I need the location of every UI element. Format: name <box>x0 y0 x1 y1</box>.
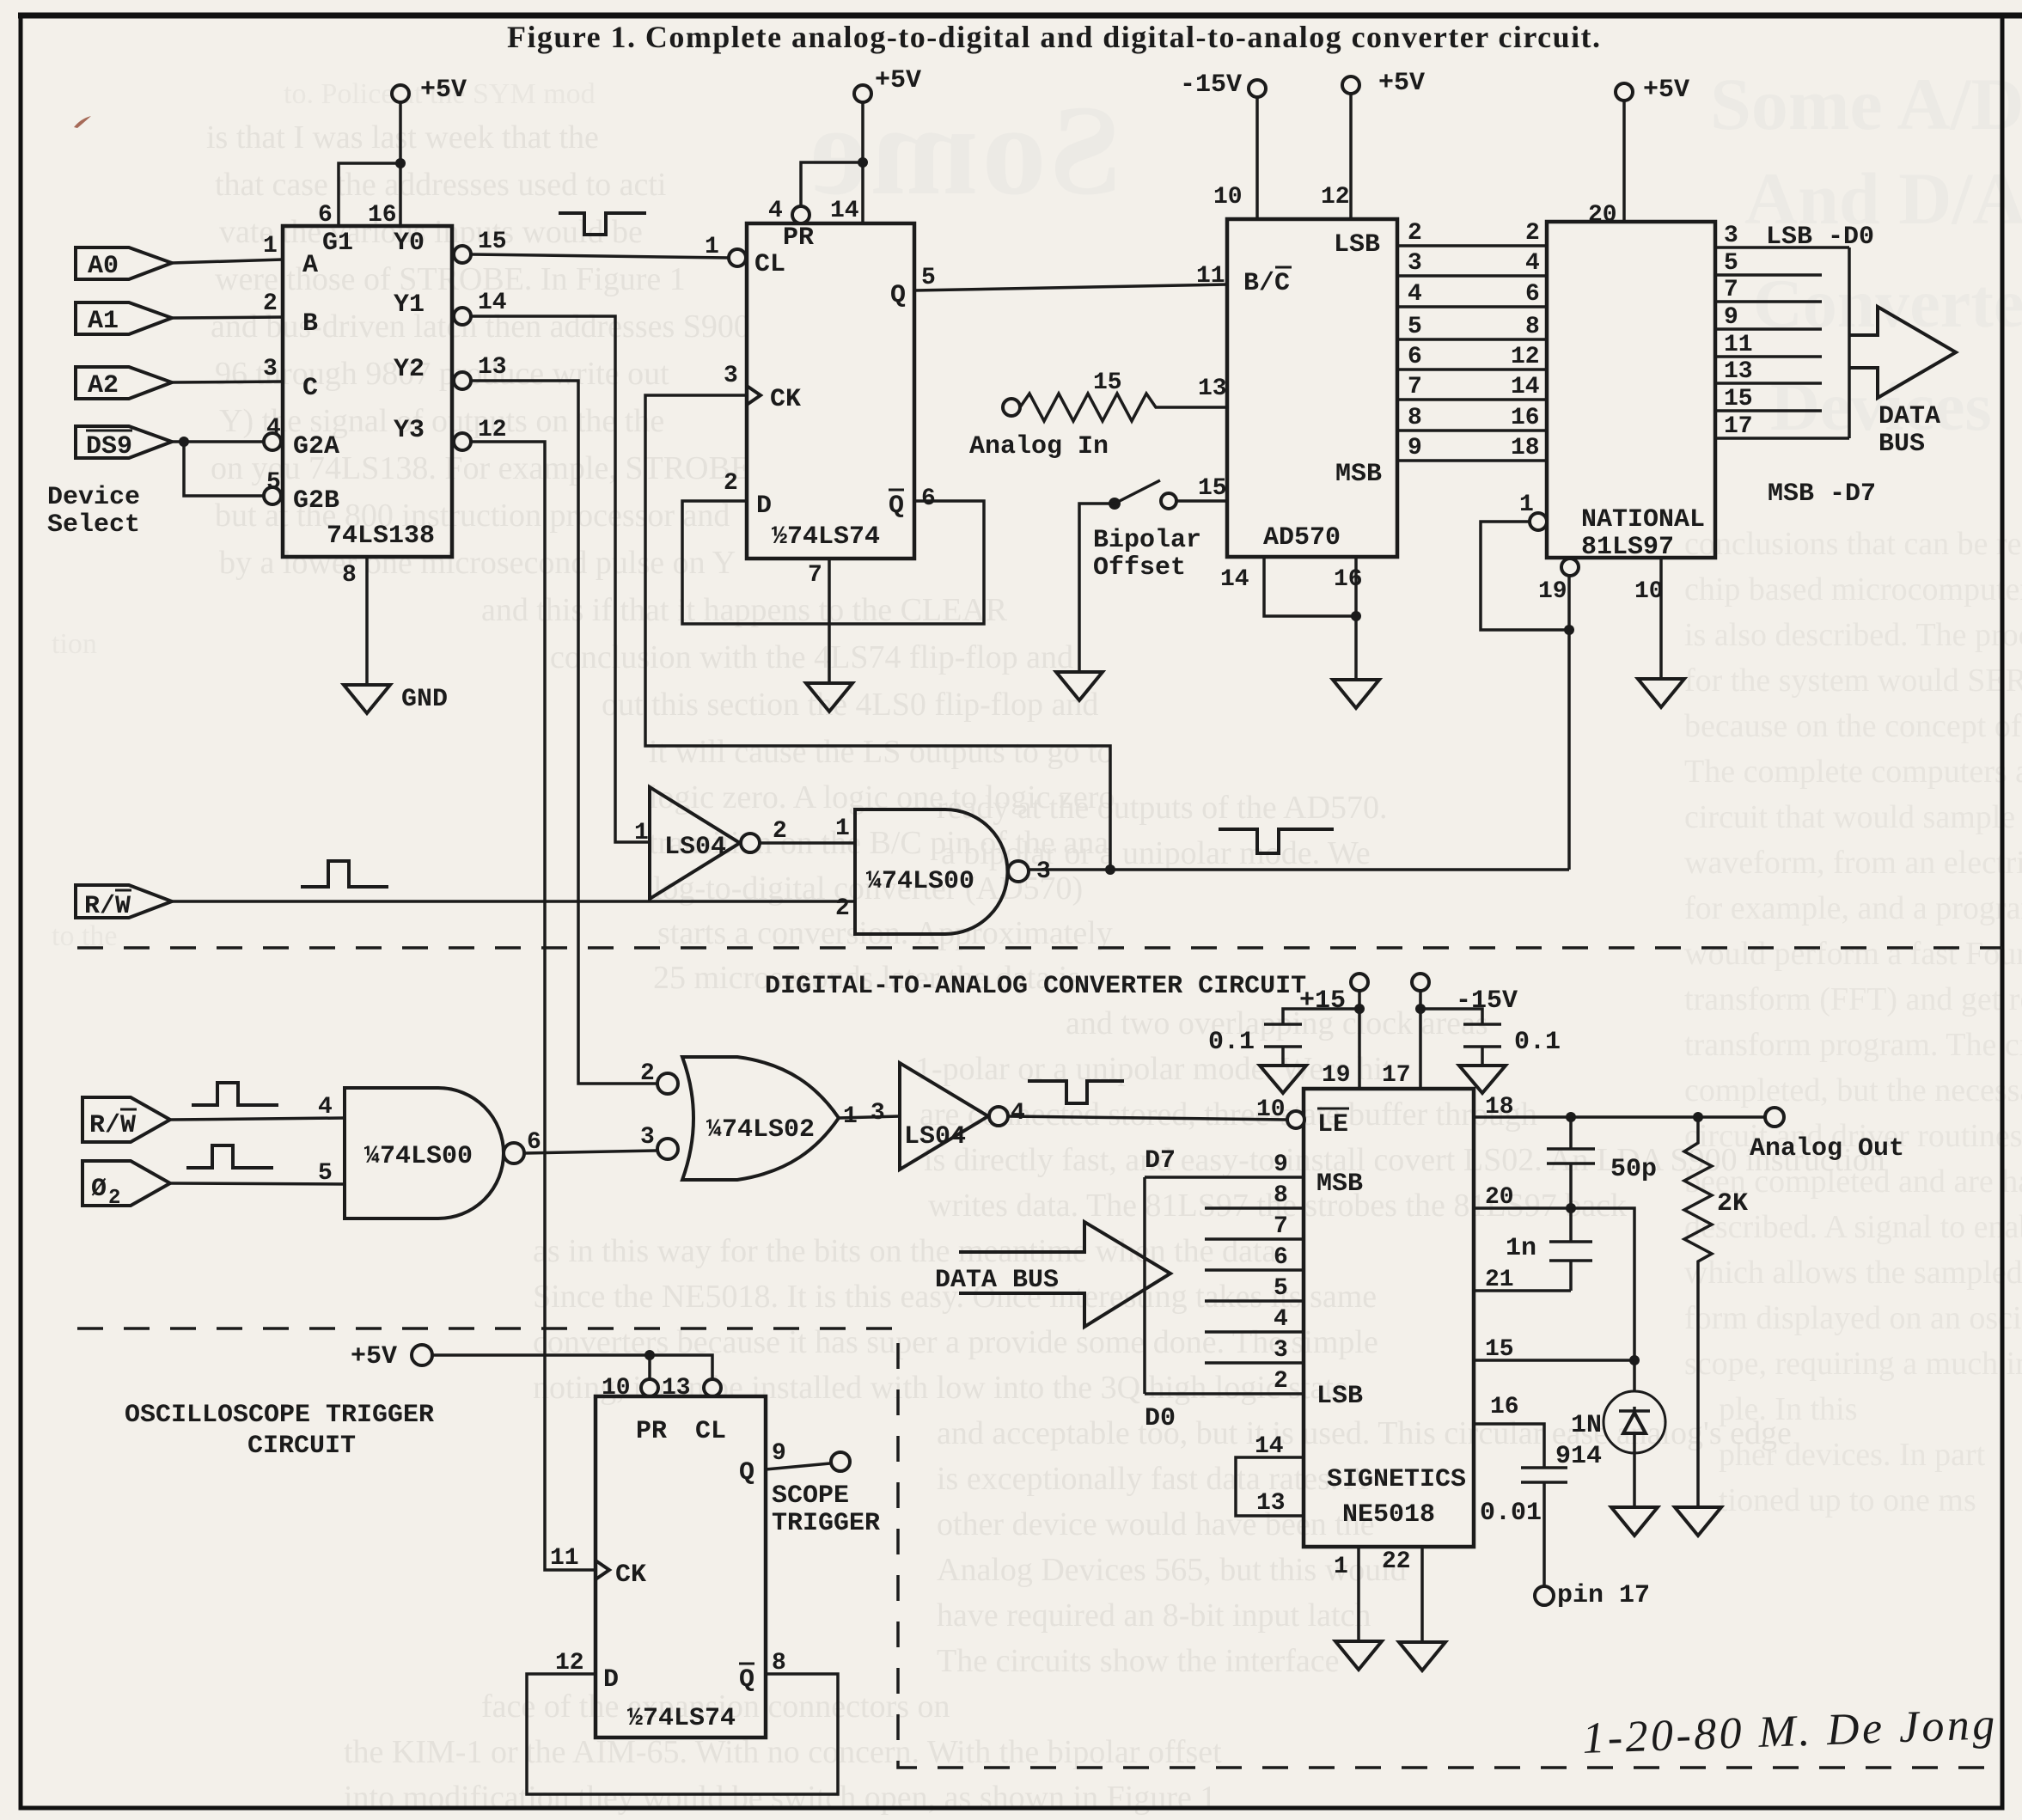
svg-text:¼74LS00: ¼74LS00 <box>364 1142 473 1171</box>
input tag A0 <box>76 247 172 281</box>
svg-text:0.1: 0.1 <box>1208 1028 1255 1057</box>
svg-text:CIRCUIT: CIRCUIT <box>247 1432 356 1461</box>
svg-text:Some A/D: Some A/D <box>1710 63 2022 145</box>
pin PR bubble (pin10) <box>602 1375 658 1402</box>
svg-text:would perform a fast Fourier: would perform a fast Fourier <box>1684 936 2022 972</box>
svg-text:15: 15 <box>1724 386 1753 412</box>
svg-text:transform program. The circuit: transform program. The circuits <box>1684 1027 2022 1063</box>
input tag A1 <box>76 302 172 336</box>
svg-text:LS04: LS04 <box>904 1122 966 1151</box>
svg-text:The complete computers and: The complete computers and <box>1684 754 2022 790</box>
wire DS9 to G2A with junction to G2B <box>172 415 281 496</box>
svg-text:Y2: Y2 <box>394 355 425 384</box>
inverter LS04 (DAC) <box>900 1063 1025 1170</box>
pin PR bubble <box>792 206 809 223</box>
wire 81LS97 pin1/pin19 enable from NAND output <box>1481 492 1579 870</box>
svg-text:4: 4 <box>1011 1100 1025 1127</box>
svg-text:PR: PR <box>636 1417 667 1446</box>
svg-text:½74LS74: ½74LS74 <box>627 1704 736 1733</box>
waveform positive pulse (phase2) <box>186 1145 273 1168</box>
svg-text:Bipolar: Bipolar <box>1093 526 1201 555</box>
svg-text:DS9: DS9 <box>86 432 132 461</box>
+5V supply (scope FF) <box>351 1342 432 1371</box>
svg-text:scope, requiring a much improv: scope, requiring a much improved <box>1684 1346 2022 1382</box>
wire Q pin9 to scope trigger terminal <box>766 1440 830 1469</box>
-15V supply (NE5018 pin17) <box>1382 974 1518 1089</box>
svg-text:Y3: Y3 <box>394 416 425 445</box>
svg-text:14: 14 <box>1511 374 1540 400</box>
svg-text:ready at the outputs of the AD: ready at the outputs of the AD570. <box>937 790 1388 826</box>
red pen mark <box>74 116 91 128</box>
svg-text:Q: Q <box>739 1665 754 1695</box>
svg-text:CL: CL <box>754 250 785 279</box>
label OSCILLOSCOPE TRIGGER CIRCUIT <box>125 1401 434 1461</box>
svg-text:3: 3 <box>263 356 278 382</box>
pin LE bubble <box>1256 1096 1304 1128</box>
svg-text:G1: G1 <box>322 229 353 258</box>
dashed separator line <box>77 946 2002 950</box>
svg-text:NE5018: NE5018 <box>1342 1500 1435 1530</box>
svg-text:Q: Q <box>889 492 904 521</box>
svg-text:14: 14 <box>1255 1433 1284 1460</box>
svg-text:9: 9 <box>1724 304 1738 331</box>
svg-text:-15V: -15V <box>1180 70 1242 100</box>
svg-text:16: 16 <box>1511 405 1540 431</box>
svg-text:15: 15 <box>1093 369 1122 396</box>
-15V supply (AD570 pin10) <box>1180 70 1266 219</box>
wire pin21 <box>1474 1267 1571 1293</box>
wire A0 to 74LS138 pin1 A <box>172 233 283 263</box>
svg-text:13: 13 <box>1198 376 1227 402</box>
svg-text:12: 12 <box>1321 184 1350 211</box>
wire pin6 G1 jog to +5V rail <box>318 158 406 229</box>
svg-text:1: 1 <box>263 233 278 260</box>
svg-text:GND: GND <box>401 685 448 714</box>
svg-text:5: 5 <box>318 1160 333 1187</box>
svg-text:10: 10 <box>1213 184 1243 211</box>
nor gate 1/4 74LS02 <box>640 1057 858 1180</box>
svg-text:11: 11 <box>550 1545 579 1572</box>
svg-text:G2A: G2A <box>293 432 339 461</box>
svg-text:MSB: MSB <box>1335 460 1382 489</box>
svg-text:16: 16 <box>368 202 397 229</box>
svg-text:21: 21 <box>1485 1267 1514 1293</box>
svg-text:7: 7 <box>1274 1213 1288 1240</box>
svg-text:1N: 1N <box>1571 1411 1602 1440</box>
svg-text:5: 5 <box>1724 250 1738 277</box>
+15 supply (NE5018 pin19) <box>1299 974 1368 1089</box>
data bus arrow (DAC input) <box>935 1222 1170 1327</box>
svg-text:16: 16 <box>1490 1394 1519 1420</box>
svg-text:½74LS74: ½74LS74 <box>772 522 880 552</box>
svg-text:that case the addresses used t: that case the addresses used to acti <box>215 167 666 203</box>
wire phase2 to NAND pin5 <box>170 1160 345 1187</box>
wires 81LS97 outputs pins 3-17 to data bus <box>1715 223 1849 249</box>
svg-text:1: 1 <box>1519 492 1534 518</box>
resistor 15 (analog input) <box>1020 369 1227 421</box>
svg-text:1: 1 <box>1334 1554 1348 1580</box>
wire A1 to 74LS138 pin2 B <box>172 290 283 318</box>
svg-text:DATA BUS: DATA BUS <box>935 1266 1059 1295</box>
wire pin7 to ground <box>808 559 829 683</box>
svg-text:Q: Q <box>890 281 906 310</box>
svg-text:DATA: DATA <box>1878 402 1940 431</box>
flip-flop U6 1/2 74LS74 (scope trigger) <box>596 1396 766 1738</box>
svg-text:2: 2 <box>835 895 850 922</box>
svg-text:¼74LS02: ¼74LS02 <box>706 1115 815 1145</box>
svg-text:13: 13 <box>1256 1490 1286 1517</box>
svg-text:3: 3 <box>870 1100 885 1127</box>
svg-text:form displayed on an oscillo: form displayed on an oscillo <box>1684 1300 2022 1336</box>
svg-text:8: 8 <box>342 562 357 589</box>
svg-text:Y1: Y1 <box>394 290 425 320</box>
svg-text:2: 2 <box>1525 220 1540 247</box>
svg-text:6: 6 <box>1274 1244 1288 1271</box>
waveform positive pulse (R/W DAC) <box>192 1083 278 1105</box>
pin 17 terminal <box>1535 1581 1650 1610</box>
svg-text:is also described. The process: is also described. The process <box>1684 617 2022 653</box>
svg-text:Select: Select <box>47 510 140 540</box>
svg-text:R/W: R/W <box>84 892 131 921</box>
svg-text:1: 1 <box>634 820 649 846</box>
Analog Out terminal <box>1750 1108 1904 1163</box>
wire Y2 down to 74LS02 input2 <box>471 354 657 1084</box>
svg-text:¼74LS00: ¼74LS00 <box>866 867 974 896</box>
capacitor 1n <box>1506 1208 1592 1291</box>
svg-text:2: 2 <box>773 818 787 845</box>
svg-text:but at the 800 instruction pro: but at the 800 instruction processor and <box>215 498 730 534</box>
svg-text:LS04: LS04 <box>664 833 726 862</box>
svg-text:12: 12 <box>1511 344 1540 370</box>
wire LS04 out to NE5018 LE <box>1008 1116 1287 1120</box>
wire NE5018 pins14-13 strap <box>1236 1433 1304 1517</box>
svg-text:+5V: +5V <box>1643 76 1689 105</box>
svg-text:3: 3 <box>724 363 738 389</box>
svg-text:2: 2 <box>640 1060 655 1087</box>
ground (81LS97 pin10) <box>1638 679 1684 707</box>
svg-text:13: 13 <box>478 354 507 381</box>
input tag A2 <box>76 367 172 400</box>
svg-text:CK: CK <box>770 385 801 414</box>
svg-text:7: 7 <box>1724 277 1738 303</box>
node data bus vertical (DAC side) <box>1143 1177 1146 1394</box>
ground (NE5018 pin22) <box>1399 1642 1445 1670</box>
svg-text:out this section the 4LS0 flip: out this section the 4LS0 flip-flop and <box>602 687 1098 723</box>
pin CL bubble (pin13) <box>662 1375 721 1402</box>
SCOPE TRIGGER terminal <box>772 1452 880 1538</box>
inverter LS04 (ADC control) <box>634 787 787 899</box>
svg-text:17: 17 <box>1724 413 1753 440</box>
svg-text:the KIM-1 or the AIM-65. With: the KIM-1 or the AIM-65. With no concern… <box>344 1734 1222 1770</box>
svg-text:1n: 1n <box>1506 1234 1536 1263</box>
wire NE5018 pin22 to ground <box>1382 1547 1422 1642</box>
svg-text:2: 2 <box>263 290 278 317</box>
svg-text:LSB: LSB <box>1316 1382 1363 1411</box>
Analog In terminal <box>969 399 1109 461</box>
svg-text:circuit that would sample the: circuit that would sample the <box>1684 799 2022 835</box>
svg-text:4: 4 <box>318 1094 333 1121</box>
pin CL bubble <box>729 249 746 266</box>
svg-text:waveform, from an electric gui: waveform, from an electric guitar <box>1684 845 2022 881</box>
svg-text:tion: tion <box>52 628 97 660</box>
svg-text:SIGNETICS: SIGNETICS <box>1327 1465 1466 1494</box>
svg-text:Analog Out: Analog Out <box>1750 1134 1904 1163</box>
svg-text:1: 1 <box>835 815 850 842</box>
svg-text:D: D <box>603 1665 619 1695</box>
svg-text:5: 5 <box>921 265 936 291</box>
svg-text:8: 8 <box>1408 405 1422 431</box>
svg-text:3: 3 <box>1408 250 1422 277</box>
svg-text:14: 14 <box>1220 566 1249 593</box>
svg-text:0.1: 0.1 <box>1514 1028 1561 1057</box>
svg-text:Q: Q <box>739 1458 754 1487</box>
svg-text:3: 3 <box>1724 223 1738 249</box>
svg-text:NATIONAL: NATIONAL <box>1581 505 1705 534</box>
svg-text:Figure 1. Complete analog-to-d: Figure 1. Complete analog-to-digital and… <box>507 20 1600 54</box>
svg-text:+15: +15 <box>1299 986 1346 1016</box>
svg-text:into modification they would b: into modification they would be switch o… <box>344 1780 1216 1816</box>
wires data bus to NE5018 pins 9-2 <box>1145 1151 1304 1178</box>
svg-text:15: 15 <box>478 229 507 255</box>
svg-text:8: 8 <box>1525 314 1540 340</box>
svg-text:CL: CL <box>695 1417 726 1446</box>
input tag R/W (ADC) <box>76 885 172 921</box>
svg-text:A: A <box>302 251 318 280</box>
waveform negative pulse (strobe) <box>559 213 646 235</box>
wires AD570 data pins 2-9 to 81LS97 <box>1397 220 1547 247</box>
svg-text:12: 12 <box>478 417 507 443</box>
wire NE5018 pin1 to ground <box>1334 1547 1359 1641</box>
svg-text:BUS: BUS <box>1878 430 1925 459</box>
wire A2 to 74LS138 pin3 C <box>172 356 283 382</box>
waveform positive pulse (R/W) <box>301 861 388 887</box>
wire R/W to NAND pin2 <box>172 900 855 903</box>
svg-text:PR: PR <box>783 223 814 253</box>
svg-text:1: 1 <box>705 234 719 260</box>
svg-text:18: 18 <box>1511 435 1540 461</box>
wire D pin2 feedback loop from Qbar pin6 <box>682 470 984 624</box>
wire 81LS97 pin10 to ground <box>1634 558 1664 679</box>
wire PR pin4 jog to +5V rail <box>768 157 868 224</box>
svg-text:14: 14 <box>830 198 859 224</box>
svg-text:2: 2 <box>1274 1368 1288 1395</box>
svg-text:for the system would SER. Now: for the system would SER. Now <box>1684 663 2022 699</box>
wire Q pin5 to AD570 B/C pin11 <box>914 263 1227 291</box>
buffer U4 NATIONAL 81LS97 <box>1547 222 1715 562</box>
wire Y0 to CL pin1 <box>471 229 729 260</box>
capacitor 0.1 (+15 bypass) <box>1208 1009 1359 1066</box>
svg-text:conclusions that can be read: conclusions that can be read <box>1684 526 2022 562</box>
decoder U1 74LS138 <box>264 226 471 557</box>
+5V supply (81LS97 pin20) <box>1588 76 1689 229</box>
svg-text:MSB -D7: MSB -D7 <box>1768 479 1876 509</box>
svg-text:3: 3 <box>1036 858 1051 885</box>
svg-text:9: 9 <box>1408 435 1422 461</box>
svg-text:9: 9 <box>1274 1151 1288 1178</box>
svg-text:2: 2 <box>724 470 738 497</box>
svg-text:12: 12 <box>555 1650 584 1676</box>
svg-text:chip based microcomputers. It: chip based microcomputers. It <box>1684 571 2022 608</box>
svg-text:D0: D0 <box>1145 1404 1176 1433</box>
ground (NE5018 pin1) <box>1335 1641 1382 1670</box>
ADC U3 AD570 <box>1227 219 1397 557</box>
svg-text:15: 15 <box>1485 1336 1514 1363</box>
svg-text:MSB: MSB <box>1316 1170 1363 1199</box>
svg-text:tioned up to one ms: tioned up to one ms <box>1719 1482 1976 1518</box>
svg-text:LSB: LSB <box>1334 230 1380 260</box>
svg-text:-15V: -15V <box>1456 986 1518 1016</box>
label Device Select <box>47 483 140 540</box>
wire AD570 pins14,16 to ground <box>1220 557 1363 680</box>
svg-text:Converter: Converter <box>1753 266 2022 342</box>
svg-text:0.01: 0.01 <box>1480 1499 1542 1528</box>
wire pin15 <box>1474 1336 1640 1365</box>
capacitor 50p <box>1547 1117 1657 1208</box>
svg-text:it will cause the LS outputs t: it will cause the LS outputs to go to <box>649 734 1113 770</box>
dashed boundary (scope trigger area) <box>77 1328 2002 1768</box>
svg-text:on you 74LS138. For example, S: on you 74LS138. For example, STROBE <box>211 450 750 486</box>
switch Bipolar Offset <box>1093 475 1227 583</box>
svg-text:1-polar or a unipolar mode. We: 1-polar or a unipolar mode. Were hit <box>915 1051 1392 1087</box>
svg-text:6: 6 <box>318 202 333 229</box>
svg-text:2: 2 <box>108 1187 120 1210</box>
svg-text:because on the concept of thes: because on the concept of these <box>1684 708 2022 744</box>
svg-text:6: 6 <box>1408 344 1422 370</box>
svg-text:11: 11 <box>1196 263 1225 290</box>
svg-text:for example, and a program tha: for example, and a program that <box>1684 890 2022 926</box>
wire CK pin3 from NAND output <box>645 363 1110 870</box>
svg-text:conclusion with the 4LS74 flip: conclusion with the 4LS74 flip-flop and <box>550 639 1073 675</box>
svg-text:Analog In: Analog In <box>969 432 1109 461</box>
svg-text:other device would have been t: other device would have been the <box>937 1506 1375 1542</box>
diode 1N914 <box>1555 1360 1665 1507</box>
svg-text:A2: A2 <box>88 371 119 400</box>
ground GND (74LS138 pin8) <box>344 685 448 714</box>
+5V supply (AD570 pin12) <box>1321 69 1425 219</box>
svg-text:Y) the signal of outputs on th: Y) the signal of outputs on the the <box>219 403 664 439</box>
ground (74LS74 pin7) <box>806 683 852 712</box>
waveform negative pulse (conversion) <box>1219 829 1334 853</box>
wire Y1 down to LS04 input <box>471 290 650 842</box>
svg-text:transform (FFT) and get result: transform (FFT) and get results <box>1684 981 2022 1017</box>
svg-text:pin 17: pin 17 <box>1557 1581 1650 1610</box>
svg-text:4: 4 <box>768 198 783 224</box>
wire pin20 to filter node <box>1474 1184 1634 1360</box>
svg-text:3: 3 <box>640 1124 655 1151</box>
wire bipolar to ground <box>1079 504 1115 672</box>
svg-text:14: 14 <box>478 290 507 316</box>
svg-text:A1: A1 <box>88 307 119 336</box>
wire LS04 out to NAND pin1 <box>760 841 855 845</box>
svg-text:A0: A0 <box>88 252 119 281</box>
ground (AD570 pin16) <box>1333 680 1379 708</box>
svg-text:5: 5 <box>1274 1275 1288 1302</box>
svg-text:+5V: +5V <box>1378 69 1425 98</box>
ground (bipolar offset) <box>1056 672 1103 700</box>
svg-text:2: 2 <box>1408 220 1422 247</box>
svg-text:Ø: Ø <box>91 1175 107 1204</box>
svg-text:C: C <box>302 374 318 403</box>
svg-text:have required an 8-bit input l: have required an 8-bit input latch <box>937 1597 1371 1634</box>
waveform negative pulse (latch enable) <box>1028 1081 1124 1103</box>
svg-text:13: 13 <box>1724 358 1753 385</box>
nand gate 1/4 74LS00 (DAC) <box>345 1088 541 1218</box>
svg-text:LE: LE <box>1317 1110 1348 1139</box>
+5V supply (74LS138 pin16) <box>368 76 467 229</box>
svg-text:18: 18 <box>1485 1094 1514 1121</box>
svg-text:which allows the sampled wave: which allows the sampled wave <box>1684 1255 2022 1291</box>
svg-text:8: 8 <box>772 1650 786 1676</box>
input tag R/W (DAC) <box>82 1097 170 1142</box>
capacitor 0.1 (-15 bypass) <box>1420 1009 1561 1066</box>
ground (diode) <box>1611 1507 1658 1536</box>
svg-text:Y0: Y0 <box>394 229 425 258</box>
svg-text:TRIGGER: TRIGGER <box>772 1509 880 1538</box>
wire pin8 to ground <box>342 557 367 685</box>
svg-text:6: 6 <box>1525 281 1540 308</box>
input tag DS9 (active low) <box>76 426 172 461</box>
svg-text:2K: 2K <box>1717 1189 1748 1218</box>
flip-flop U2 1/2 74LS74 <box>747 223 914 559</box>
svg-text:D: D <box>756 492 772 521</box>
wire R/W to NAND pin4 <box>170 1094 345 1121</box>
wire pin16 to 0.01 cap <box>1474 1394 1567 1585</box>
svg-text:19: 19 <box>1538 578 1567 605</box>
svg-text:6: 6 <box>921 486 936 512</box>
svg-text:4: 4 <box>1525 250 1540 277</box>
svg-text:4: 4 <box>1274 1306 1288 1333</box>
svg-text:by a lower one microsecond pul: by a lower one microsecond pulse on Y <box>219 545 736 581</box>
svg-text:4: 4 <box>1408 281 1422 308</box>
ground (-15 bypass) <box>1459 1066 1506 1093</box>
svg-text:AD570: AD570 <box>1263 523 1341 553</box>
dac U5 SIGNETICS NE5018 <box>1304 1089 1474 1547</box>
svg-text:CK: CK <box>615 1560 646 1590</box>
svg-text:16: 16 <box>1334 566 1363 593</box>
border frame <box>18 13 2022 19</box>
svg-text:ple. In this: ple. In this <box>1719 1391 1857 1427</box>
svg-text:11: 11 <box>1724 332 1753 358</box>
wire pin18 analog output line <box>1474 1094 1764 1122</box>
svg-text:+5V: +5V <box>351 1342 397 1371</box>
svg-text:+5V: +5V <box>420 76 467 105</box>
svg-text:19: 19 <box>1322 1062 1351 1089</box>
input tag phase2 clock <box>82 1161 170 1210</box>
svg-text:15: 15 <box>1198 475 1227 502</box>
svg-text:10: 10 <box>1634 578 1664 605</box>
svg-text:The circuits show the interfac: The circuits show the interface <box>937 1643 1339 1679</box>
wire NAND output to 81LS97 enable and CK branch <box>1029 864 1569 875</box>
svg-text:20: 20 <box>1485 1184 1514 1211</box>
svg-text:B/C: B/C <box>1243 269 1290 298</box>
+5V supply (74LS74 pin14) <box>830 66 921 224</box>
svg-text:completed, but the necessary s: completed, but the necessary soft <box>1684 1072 2022 1108</box>
wire D pin12 feedback loop from Qbar pin8 <box>527 1650 838 1794</box>
wire NAND6 out to 74LS02 pin3 <box>524 1151 657 1153</box>
svg-text:+5V: +5V <box>875 66 921 95</box>
wire Y3 down to scope-trigger CK <box>471 417 596 1570</box>
svg-text:17: 17 <box>1382 1062 1411 1089</box>
svg-text:B: B <box>302 309 318 339</box>
svg-text:G2B: G2B <box>293 486 339 516</box>
svg-text:R/W: R/W <box>89 1111 136 1140</box>
svg-text:50p: 50p <box>1610 1155 1657 1184</box>
svg-text:8: 8 <box>1274 1182 1288 1209</box>
svg-text:20: 20 <box>1588 202 1617 229</box>
svg-text:SCOPE: SCOPE <box>772 1481 849 1511</box>
svg-text:LSB -D0: LSB -D0 <box>1766 223 1874 252</box>
svg-text:OSCILLOSCOPE TRIGGER: OSCILLOSCOPE TRIGGER <box>125 1401 434 1430</box>
